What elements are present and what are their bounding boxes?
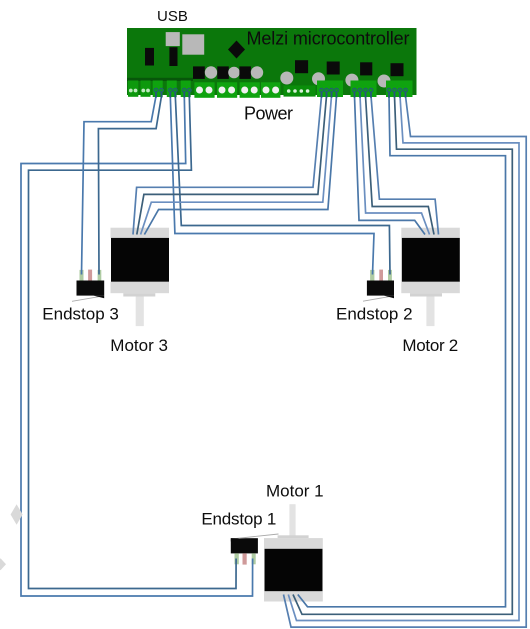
wire motor3 A4 [144,96,336,235]
endstop connector block 3 [153,81,164,98]
wire motor1 C3 [288,96,519,621]
svg-text:Endstop 1: Endstop 1 [201,509,276,528]
svg-text:Power: Power [244,104,293,124]
power terminal block P3 [240,82,260,98]
svg-text:Motor 1: Motor 1 [266,482,324,501]
power terminal block P2 [217,82,237,98]
endstop connector block 5 [181,81,191,98]
stepper driver chip X [295,60,308,73]
capacitor C2 [169,47,177,66]
wire motor2 B3 [366,96,435,235]
endstop S2 [363,270,394,302]
stepper driver trimpot X [280,72,293,85]
stepper driver trimpot Z [345,74,358,87]
wire motor1 C2 [293,96,512,614]
mosfet Q3 [239,66,251,79]
stepper driver trimpot E [378,75,391,88]
svg-text:Motor 3: Motor 3 [110,336,168,355]
capacitor C1 [145,48,154,66]
stepper driver chip E [391,63,404,76]
wire endstop2 E2a (block4 pin1 to endstop2 left pin) [170,96,374,275]
wire motor1 C4 [284,96,527,627]
stepper driver trimpot Y [312,72,325,85]
extruder connector block (4 dots) [284,85,316,96]
motor M2 body [401,228,460,326]
reset button diamond [228,41,245,59]
USB connector shield large [182,34,204,54]
wire motor2 B1 [355,96,426,235]
stepper driver chip Y [327,62,340,75]
endstop S3 [72,270,104,302]
power terminal block P4 [261,82,280,98]
wire motor1 C1 (block C pin1 via right edge loop) [298,96,506,607]
trimpot circle 1 [205,66,217,78]
svg-text:Melzi microcontroller: Melzi microcontroller [247,29,410,49]
wire endstop1 W2 (block5 pin2 via left edge loop to endstop1 left pin) [29,96,237,589]
wire motor3 A1 [133,96,322,235]
USB connector shield small [166,32,180,46]
trimpot circle 2 [228,67,240,79]
mosfet Q2 [217,66,229,79]
terminal block 1 [128,81,138,97]
motor connector block A [317,81,343,98]
trimpot circle 3 [251,66,263,78]
svg-text:Endstop 3: Endstop 3 [42,305,119,324]
terminal block 2 [141,81,151,97]
wire motor3 A2 [137,96,327,235]
decorative gray diamond marker 2 [0,558,6,570]
endstop S1 (flipped) [231,534,279,565]
wire endstop2 E2b (block4 pin2 to endstop2 right pin) [175,96,390,275]
wire motor2 B2 [360,96,430,235]
wire motor2 B4 [371,96,439,235]
decorative gray diamond marker 1 [11,504,23,524]
motor connector block C [386,81,413,98]
wire endstop1 W1 (block5 pin1 via left edge loop to endstop1 right pin) [21,96,253,596]
svg-text:USB: USB [157,8,188,25]
wire endstop3 E3b (block3 pin2 to endstop3 right pin) [98,96,161,275]
svg-text:Motor 2: Motor 2 [402,336,458,355]
board edge shadow strip [127,78,193,81]
motor connector block B [351,81,377,98]
stepper driver chip Z [360,62,372,75]
motor M3 body [111,228,170,326]
motor M1 body (flipped) [264,504,323,601]
mosfet Q1 [193,66,205,79]
wire motor3 A3 [141,96,332,235]
power terminal block P1 [194,82,214,98]
board U1 Melzi PCB [127,28,417,95]
wire endstop3 E3a (block3 pin1 to endstop3 left pin) [82,96,157,275]
endstop connector block 4 [167,81,177,98]
svg-text:Endstop 2: Endstop 2 [336,305,413,324]
